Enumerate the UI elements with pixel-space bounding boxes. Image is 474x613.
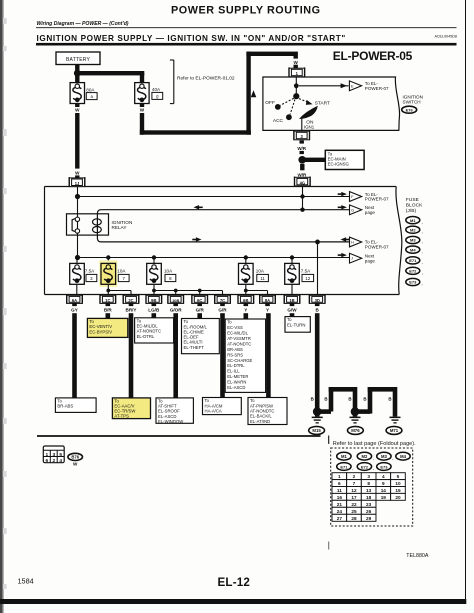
svg-text:11: 11 (260, 276, 265, 281)
svg-text:RELAY: RELAY (112, 225, 128, 230)
svg-text:ACC: ACC (273, 118, 284, 124)
svg-text:LG/B: LG/B (148, 308, 160, 313)
svg-text:E72: E72 (409, 269, 417, 274)
svg-text:,: , (373, 455, 374, 460)
svg-text:W: W (140, 108, 145, 113)
svg-text:10B: 10B (172, 298, 179, 303)
svg-text:20: 20 (395, 495, 401, 500)
svg-text:RS-SRS: RS-SRS (227, 352, 243, 357)
svg-text:1J: 1J (75, 181, 80, 186)
svg-text:G: G (351, 208, 354, 212)
svg-text:7: 7 (353, 481, 356, 486)
svg-text:E71: E71 (409, 258, 417, 263)
svg-text:4: 4 (59, 458, 62, 464)
svg-text:EL-ILL: EL-ILL (227, 369, 240, 374)
svg-text:E73: E73 (380, 464, 388, 469)
svg-text:40A: 40A (152, 87, 161, 92)
svg-text:2: 2 (52, 458, 55, 464)
svg-text:27: 27 (337, 516, 343, 521)
svg-text:8A: 8A (265, 298, 270, 303)
svg-text:Refer to EL-POWER-01,02: Refer to EL-POWER-01,02 (177, 75, 235, 81)
svg-text:B: B (311, 396, 314, 401)
svg-text:2C: 2C (128, 298, 133, 303)
svg-text:M4: M4 (400, 454, 406, 459)
svg-text:M2: M2 (361, 454, 367, 459)
svg-text:Y: Y (244, 308, 247, 313)
svg-text:,: , (422, 239, 423, 244)
svg-text:6C: 6C (197, 298, 202, 303)
svg-text:EC-IGNSG: EC-IGNSG (328, 162, 350, 167)
svg-text:page: page (365, 259, 376, 264)
svg-text:EL-ASCD: EL-ASCD (227, 385, 245, 390)
svg-text:,: , (422, 281, 423, 286)
svg-text:,: , (352, 466, 353, 471)
svg-text:13: 13 (366, 488, 372, 493)
svg-text:10A: 10A (256, 269, 265, 274)
svg-text:,: , (352, 455, 353, 460)
svg-text:24: 24 (337, 509, 343, 514)
svg-text:22: 22 (351, 502, 357, 507)
svg-text:EC-BYPS/V: EC-BYPS/V (89, 329, 112, 334)
svg-text:(J/B): (J/B) (406, 208, 417, 214)
svg-text:5: 5 (59, 452, 62, 458)
svg-text:IGNITION POWER SUPPLY — IGNITI: IGNITION POWER SUPPLY — IGNITION SW. IN … (37, 34, 346, 43)
svg-text:AT-TPS: AT-TPS (114, 414, 129, 419)
svg-text:E72: E72 (361, 464, 369, 469)
svg-text:START: START (315, 100, 330, 106)
svg-text:BATTERY: BATTERY (66, 57, 90, 63)
svg-text:EL-POWER-05: EL-POWER-05 (333, 49, 413, 63)
svg-text:1584: 1584 (18, 577, 34, 586)
svg-text:J: J (351, 257, 353, 261)
svg-text:E76: E76 (406, 107, 414, 112)
svg-text:B: B (388, 396, 391, 401)
svg-text:G/OR: G/OR (170, 308, 182, 313)
svg-text:29: 29 (366, 516, 372, 521)
svg-text:EL-DTRL: EL-DTRL (227, 363, 245, 368)
svg-text:M2: M2 (410, 227, 416, 232)
svg-text:9: 9 (382, 481, 385, 486)
svg-text:6A: 6A (72, 298, 77, 303)
svg-text:POWER-07: POWER-07 (365, 197, 389, 202)
svg-text:4G: 4G (300, 180, 305, 185)
svg-text:12: 12 (305, 276, 310, 281)
svg-text:1: 1 (338, 474, 341, 479)
svg-text:17: 17 (351, 495, 357, 500)
svg-text:M76: M76 (351, 428, 360, 433)
svg-text:M3: M3 (381, 454, 387, 459)
svg-text:,: , (422, 219, 423, 224)
svg-text:SWITCH: SWITCH (403, 99, 421, 104)
svg-text:M3: M3 (410, 238, 416, 243)
svg-text:Y: Y (266, 308, 269, 313)
svg-text:BR/Y: BR/Y (126, 308, 137, 313)
svg-text:W: W (75, 108, 80, 113)
svg-text:3: 3 (52, 452, 55, 458)
svg-text:14: 14 (381, 488, 387, 493)
svg-text:16: 16 (337, 495, 343, 500)
svg-text:EC-VSS: EC-VSS (227, 325, 243, 330)
svg-text:W: W (75, 171, 80, 176)
svg-text:6B: 6B (243, 298, 248, 303)
svg-text:21: 21 (337, 502, 343, 507)
svg-text:1B: 1B (289, 298, 294, 303)
svg-text:OFF: OFF (265, 100, 275, 106)
svg-text:,: , (422, 249, 423, 254)
svg-text:19: 19 (381, 495, 387, 500)
svg-text:7.5A: 7.5A (301, 269, 311, 274)
svg-text:W: W (294, 60, 299, 65)
svg-text:M71: M71 (390, 428, 399, 433)
svg-text:28: 28 (351, 516, 357, 521)
svg-text:7.5A: 7.5A (85, 269, 95, 274)
svg-text:M15: M15 (312, 428, 321, 433)
svg-text:IGN1: IGN1 (304, 124, 315, 129)
svg-text:25: 25 (351, 509, 357, 514)
svg-text:EL-TURN: EL-TURN (287, 322, 305, 327)
svg-text:EL-WARN: EL-WARN (227, 380, 246, 385)
svg-text:To: To (227, 320, 232, 325)
svg-text:9B: 9B (151, 298, 156, 303)
svg-text:3D: 3D (315, 298, 320, 303)
svg-text:E71: E71 (340, 464, 348, 469)
svg-text:SC-CHARGE: SC-CHARGE (227, 358, 252, 363)
svg-text:H: H (351, 241, 354, 245)
svg-text:6: 6 (338, 481, 341, 486)
svg-text:E73: E73 (409, 280, 417, 285)
svg-text:80A: 80A (86, 87, 95, 92)
svg-text:7C: 7C (220, 298, 225, 303)
svg-text:Refer to last page (Foldout pa: Refer to last page (Foldout page). (333, 441, 416, 447)
svg-text:,: , (392, 455, 393, 460)
svg-text:3: 3 (367, 474, 370, 479)
svg-text:AT-VSSMTR: AT-VSSMTR (227, 336, 251, 341)
svg-text:EL-AT/IND: EL-AT/IND (250, 419, 270, 424)
svg-text:POWER-07: POWER-07 (365, 244, 389, 249)
svg-text:AT-NONDTC: AT-NONDTC (227, 341, 251, 346)
svg-text:GY: GY (71, 308, 78, 313)
svg-text:POWER SUPPLY ROUTING: POWER SUPPLY ROUTING (171, 5, 321, 17)
svg-text:HA-A/CA: HA-A/CA (205, 408, 222, 413)
svg-text:5: 5 (397, 474, 400, 479)
svg-text:EL-WINDOW: EL-WINDOW (158, 419, 183, 424)
svg-text:B: B (324, 396, 327, 401)
svg-text:15: 15 (395, 488, 401, 493)
svg-text:M4: M4 (410, 247, 416, 252)
svg-text:1C: 1C (105, 298, 110, 303)
svg-text:B76: B76 (71, 455, 79, 460)
svg-text:10: 10 (395, 481, 401, 486)
svg-text:B/R: B/R (104, 308, 113, 313)
svg-text:W/R: W/R (298, 172, 307, 177)
svg-text:EL-12: EL-12 (218, 576, 251, 589)
svg-text:26: 26 (366, 509, 372, 514)
svg-text:Wiring Diagram — POWER — (Cont: Wiring Diagram — POWER — (Cont'd) (37, 21, 129, 27)
svg-text:M1: M1 (410, 218, 416, 223)
svg-text:,: , (422, 260, 423, 265)
svg-text:23: 23 (366, 502, 372, 507)
svg-text:EL-THEFT: EL-THEFT (184, 345, 205, 350)
svg-text:1: 1 (45, 452, 48, 458)
svg-text:8: 8 (367, 481, 370, 486)
svg-text:EL-DTRL: EL-DTRL (137, 334, 155, 339)
svg-text:ACEL0045D8: ACEL0045D8 (434, 35, 457, 39)
svg-text:,: , (422, 229, 423, 234)
svg-text:G/R: G/R (218, 308, 227, 313)
svg-text:4: 4 (382, 474, 385, 479)
svg-text:B: B (363, 396, 366, 401)
svg-text:EL-METER: EL-METER (227, 374, 248, 379)
svg-text:BLOCK: BLOCK (406, 202, 423, 208)
svg-text:G/R: G/R (196, 308, 205, 313)
svg-text:M1: M1 (341, 454, 347, 459)
svg-text:2: 2 (353, 474, 356, 479)
svg-text:18: 18 (366, 495, 372, 500)
svg-text:11: 11 (337, 488, 342, 493)
svg-text:TEL880A: TEL880A (406, 553, 429, 559)
svg-text:6: 6 (45, 458, 48, 464)
svg-text:FUSE: FUSE (406, 197, 420, 203)
svg-text:B: B (348, 396, 351, 401)
svg-text:,: , (422, 270, 423, 275)
svg-text:W/R: W/R (297, 146, 306, 151)
svg-text:12: 12 (351, 488, 357, 493)
svg-text:POWER-07: POWER-07 (365, 86, 389, 91)
svg-text:EC-MIL/DL: EC-MIL/DL (227, 331, 248, 336)
svg-text:G/W: G/W (287, 308, 297, 313)
svg-text:10A: 10A (117, 269, 126, 274)
svg-text:BR-ABS: BR-ABS (57, 404, 73, 409)
svg-text:,: , (373, 466, 374, 471)
svg-text:10A: 10A (164, 269, 173, 274)
svg-text:page: page (365, 210, 376, 215)
svg-text:W: W (73, 462, 78, 467)
svg-text:BR-ABS: BR-ABS (227, 347, 243, 352)
